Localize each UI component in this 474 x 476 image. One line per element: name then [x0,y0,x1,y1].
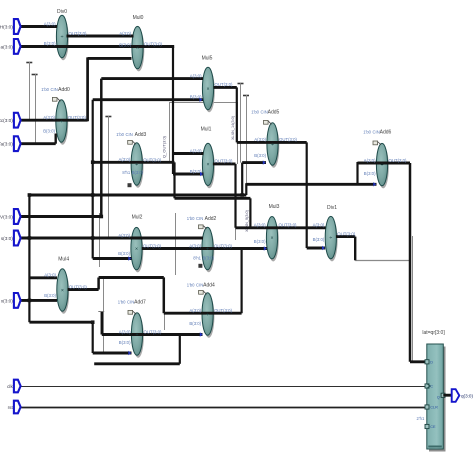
svg-text:Add3: Add3 [135,132,147,138]
svg-text:A(3:0): A(3:0) [44,21,56,26]
svg-text:+: + [135,162,138,168]
svg-text:×: × [206,86,209,92]
svg-text:rst: rst [8,405,14,410]
svg-text:OUT(3:0): OUT(3:0) [68,115,86,120]
svg-text:C: C [430,385,433,389]
svg-text:A(3:0): A(3:0) [190,148,202,153]
svg-text:1'b0: 1'b0 [116,132,124,137]
svg-text:x(3:0): x(3:0) [1,298,13,303]
svg-text:2'h1: 2'h1 [417,416,425,421]
svg-text:OUT(3:0): OUT(3:0) [389,158,407,163]
svg-text:Q_OUT(3:0): Q_OUT(3:0) [162,135,167,158]
svg-text:Add5: Add5 [268,110,280,116]
svg-text:A(3:0): A(3:0) [119,31,131,36]
svg-text:1'b0: 1'b0 [251,110,259,115]
svg-text:OUT(3:0): OUT(3:0) [214,243,232,248]
svg-text:clk: clk [7,384,13,389]
svg-text:B(3:0): B(3:0) [44,293,56,298]
svg-text:OUT(3:0): OUT(3:0) [143,243,161,248]
svg-text:Mul4: Mul4 [58,257,69,263]
svg-text:OUT(3:0): OUT(3:0) [215,82,233,87]
svg-text:V(3:0): V(3:0) [0,214,13,219]
svg-text:CE: CE [430,425,436,429]
svg-text:×: × [206,162,209,168]
svg-text:CIN: CIN [127,300,134,305]
svg-text:÷: ÷ [61,34,64,40]
svg-text:Add6: Add6 [380,129,392,135]
svg-text:OUT(3:0): OUT(3:0) [279,223,297,228]
svg-text:B(3:0): B(3:0) [254,153,266,158]
svg-text:OUT(3:0): OUT(3:0) [215,159,233,164]
svg-text:CIN: CIN [51,87,58,92]
svg-text:CIN: CIN [196,216,203,221]
svg-text:×: × [270,236,273,242]
svg-text:B(3:0): B(3:0) [254,239,266,244]
svg-text:×: × [61,288,64,294]
svg-text:Mul3: Mul3 [269,204,280,210]
svg-text:CLR: CLR [430,406,438,410]
svg-text:A(3:0): A(3:0) [119,329,131,334]
svg-text:s(3:0): s(3:0) [1,236,13,241]
svg-text:CIN: CIN [196,283,203,288]
svg-text:+: + [135,332,138,338]
svg-text:A(3:0): A(3:0) [254,137,266,142]
svg-text:Mul1: Mul1 [201,127,212,133]
svg-text:+: + [380,162,383,168]
svg-text:CIN: CIN [261,110,268,115]
svg-text:OUT(3:0): OUT(3:0) [144,41,162,46]
svg-text:B(3:0): B(3:0) [132,170,144,175]
svg-text:B(3:0): B(3:0) [119,42,131,47]
svg-text:a(3:0): a(3:0) [1,44,14,49]
svg-text:OUT(3:0): OUT(3:0) [69,284,87,289]
svg-text:Q: Q [437,395,440,399]
svg-text:Mul5: Mul5 [202,56,213,62]
svg-text:B(3:0): B(3:0) [364,171,376,176]
svg-text:A(3:0): A(3:0) [44,273,56,278]
svg-text:OUT(3:0): OUT(3:0) [279,137,297,142]
svg-text:q(3:0): q(3:0) [461,393,473,398]
svg-text:Mul2: Mul2 [132,215,143,221]
svg-text:÷: ÷ [329,235,332,241]
svg-text:B(3:0): B(3:0) [43,128,55,133]
svg-text:+: + [271,142,274,148]
svg-text:+: + [206,312,209,318]
svg-text:A(3:0): A(3:0) [190,73,202,78]
svg-text:B(3:0): B(3:0) [203,256,215,261]
svg-text:Ta(3:0): Ta(3:0) [0,142,13,147]
svg-text:B(3:0): B(3:0) [119,340,131,345]
svg-text:8'h1: 8'h1 [122,170,130,175]
svg-text:1'b0: 1'b0 [187,283,195,288]
svg-text:Rc(3:0): Rc(3:0) [0,118,13,123]
svg-text:B(3:0): B(3:0) [313,237,325,242]
svg-text:XLXN_14(3:0): XLXN_14(3:0) [231,115,235,140]
svg-text:A(3:0): A(3:0) [43,115,55,120]
svg-text:OUT(3:0): OUT(3:0) [337,231,355,236]
svg-text:Add0: Add0 [58,87,70,93]
svg-text:1'b0: 1'b0 [363,129,371,134]
svg-text:A(3:0): A(3:0) [189,308,201,313]
svg-text:A(3:0): A(3:0) [313,223,325,228]
svg-text:H(3:0): H(3:0) [0,24,13,29]
svg-text:OUT(3:0): OUT(3:0) [69,31,87,36]
svg-text:×: × [136,45,139,51]
svg-text:+: + [206,246,209,252]
svg-text:1'b0: 1'b0 [118,300,126,305]
svg-text:A(3:0): A(3:0) [364,158,376,163]
svg-text:1'b0: 1'b0 [41,87,49,92]
svg-text:Add2: Add2 [205,216,217,222]
svg-text:CIN: CIN [126,132,133,137]
svg-text:lat=qr[3:0]: lat=qr[3:0] [422,330,445,336]
svg-text:OUT(3:0): OUT(3:0) [143,157,161,162]
svg-text:B(3:0): B(3:0) [118,251,130,256]
svg-text:Div1: Div1 [327,205,337,211]
svg-text:+: + [60,119,63,125]
svg-text:CIN: CIN [373,129,380,134]
svg-text:Add7: Add7 [134,300,146,306]
svg-text:B(3:0): B(3:0) [44,41,56,46]
svg-text:B(3:0): B(3:0) [189,321,201,326]
svg-text:Add4: Add4 [203,283,215,289]
svg-text:OUT(3:0): OUT(3:0) [214,308,232,313]
svg-text:A(3:0): A(3:0) [118,233,130,238]
svg-text:Div0: Div0 [57,9,67,15]
svg-text:OUT(3:0): OUT(3:0) [144,329,162,334]
svg-text:A(3:0): A(3:0) [189,243,201,248]
svg-text:A(3:0): A(3:0) [118,157,130,162]
svg-text:8'h1: 8'h1 [193,256,201,261]
svg-text:A(3:0): A(3:0) [254,223,266,228]
svg-text:×: × [135,246,138,252]
svg-text:D: D [430,360,433,364]
svg-text:1'b0: 1'b0 [187,216,195,221]
svg-text:Mul0: Mul0 [133,15,144,21]
